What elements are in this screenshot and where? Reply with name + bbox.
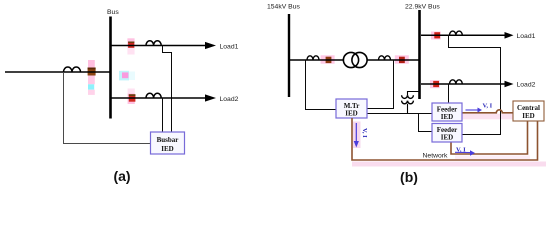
- wire feeder incoming: [5, 71, 111, 73]
- CT load2 (b): [433, 81, 439, 87]
- svg-text:IED: IED: [441, 134, 453, 142]
- busbar bus (a): [109, 17, 112, 119]
- wire tap secondary to M.Tr IED: [367, 60, 394, 109]
- reactor load1 (a): [146, 41, 161, 46]
- reactor secondary: [379, 56, 391, 60]
- arrow V,I feeder1 to central: [466, 103, 493, 113]
- wire branch to feeder IED 2: [419, 114, 433, 132]
- highlight band M.Tr arrow: [353, 122, 361, 149]
- svg-text:IED: IED: [161, 145, 173, 153]
- svg-text:IED: IED: [345, 110, 357, 118]
- wire load1 branch (a): [112, 42, 217, 49]
- grounding transformer: [402, 92, 420, 114]
- CT primary: [326, 57, 332, 63]
- svg-text:Load1: Load1: [220, 44, 239, 51]
- svg-text:Network: Network: [423, 153, 449, 160]
- CT load2 (b) highlight: [430, 80, 440, 88]
- CT feeder highlight band: [88, 60, 95, 95]
- svg-text:Bus: Bus: [107, 9, 119, 16]
- wire tap load2 to IED: [162, 98, 164, 133]
- CT load1 (a) highlight: [127, 38, 134, 54]
- highlight band feeder link: [461, 114, 516, 120]
- svg-text:V, I: V, I: [361, 128, 368, 138]
- svg-text:22.9kV Bus: 22.9kV Bus: [405, 3, 440, 10]
- CT load1 (b) highlight: [431, 32, 441, 40]
- highlight band network middle: [455, 156, 530, 160]
- transformer T1: [343, 52, 367, 67]
- svg-text:V, I: V, I: [483, 103, 493, 110]
- reactor feeder coil: [64, 67, 81, 72]
- wire tap load1 to feeder IED2: [449, 35, 501, 134]
- wire tap load1 to IED: [163, 46, 172, 134]
- svg-text:(a): (a): [113, 168, 130, 184]
- wire load2 branch (b): [421, 81, 514, 88]
- svg-text:Load2: Load2: [220, 96, 239, 103]
- busbar 22.9kV: [418, 10, 421, 99]
- CT load1 (b): [434, 32, 440, 38]
- svg-text:(b): (b): [400, 169, 418, 185]
- svg-text:IED: IED: [522, 112, 534, 120]
- wire load2 branch (a): [112, 94, 217, 101]
- wire load1 branch (b): [421, 32, 514, 39]
- svg-text:Load1: Load1: [517, 33, 536, 40]
- wire tap feeder to IED: [64, 72, 151, 144]
- arrow V,I feeder2 to network: [455, 147, 475, 156]
- svg-text:Busbar: Busbar: [157, 136, 179, 144]
- IED box Feeder 1: [432, 103, 462, 121]
- wire tap primary to M.Tr IED: [306, 60, 337, 110]
- CT feeder: [88, 68, 96, 76]
- wire M.Tr IED to feeder IEDs: [367, 113, 432, 115]
- VT icon near bus: [119, 71, 135, 81]
- wire transformer feeder: [289, 59, 420, 61]
- network wire M.Tr to Central: [352, 118, 538, 160]
- arrow V,I down from M.Tr: [354, 123, 368, 148]
- reactor load2 (b): [450, 80, 463, 84]
- CT secondary: [399, 57, 405, 63]
- svg-text:154kV Bus: 154kV Bus: [267, 3, 300, 10]
- highlight band network bottom: [352, 162, 546, 167]
- network wire Feeder2 to Central: [451, 121, 528, 154]
- network wire Feeder1 to Central: [462, 110, 513, 113]
- reactor primary: [307, 56, 319, 60]
- IED box M.Tr: [336, 99, 367, 118]
- IED box Feeder 2: [432, 124, 462, 143]
- CT primary highlight: [321, 55, 335, 63]
- reactor load1 (b): [450, 31, 463, 35]
- reactor load2 (a): [146, 93, 161, 98]
- svg-text:Central: Central: [517, 104, 540, 112]
- busbar 154kV: [288, 14, 290, 97]
- CT load2 (a): [129, 94, 136, 101]
- wire tap load2 to feeder IED1: [448, 84, 450, 103]
- IED box Busbar: [151, 132, 185, 154]
- CT load2 (a) highlight: [128, 89, 135, 105]
- svg-text:IED: IED: [441, 113, 453, 121]
- CT load1 (a): [128, 42, 134, 48]
- svg-text:Load2: Load2: [517, 82, 536, 89]
- IED box Central: [513, 101, 544, 121]
- CT secondary highlight: [395, 55, 409, 63]
